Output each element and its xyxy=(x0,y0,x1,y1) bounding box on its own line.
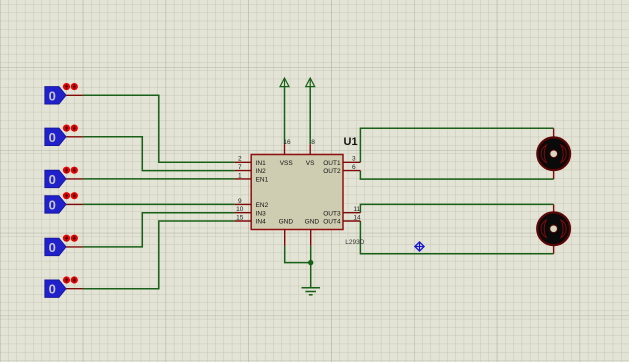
svg-text:11: 11 xyxy=(353,206,360,213)
svg-text:IN4: IN4 xyxy=(256,219,267,226)
pin 1 stub xyxy=(235,178,252,180)
wire input2 to IN2 xyxy=(83,137,235,171)
pin number 10 xyxy=(236,206,244,213)
pin 10 stub xyxy=(235,212,252,214)
pin name GND left xyxy=(279,219,294,226)
wire GND left pin to junction xyxy=(285,246,311,263)
svg-text:9: 9 xyxy=(238,198,242,205)
pin 16 stub xyxy=(284,144,286,154)
pin 9 stub xyxy=(235,203,252,205)
svg-text:GND: GND xyxy=(279,219,294,226)
svg-text:0: 0 xyxy=(49,88,56,103)
svg-text:L293D: L293D xyxy=(345,239,364,246)
pin name EN2 xyxy=(256,202,269,209)
svg-text:10: 10 xyxy=(236,206,244,213)
pin number 6 xyxy=(352,164,356,171)
wire input3 to EN1 xyxy=(83,178,235,180)
wire OUT4 to motor M2 bottom xyxy=(360,221,553,254)
origin marker xyxy=(415,242,424,251)
pin number 9 xyxy=(238,198,242,205)
wire OUT2 to motor M1 bottom xyxy=(360,171,553,180)
svg-text:OUT4: OUT4 xyxy=(323,219,341,226)
motor M2 xyxy=(537,204,570,253)
svg-text:7: 7 xyxy=(238,164,242,171)
wire input4 to EN2 xyxy=(83,203,235,205)
pin name OUT4 xyxy=(323,219,341,226)
logic state input 6 xyxy=(45,276,83,297)
junction dot xyxy=(308,260,313,265)
pin name VS xyxy=(306,160,315,167)
logic state input 4 xyxy=(45,192,83,213)
op-amp U1 body (L293D driver) xyxy=(251,155,343,230)
svg-text:0: 0 xyxy=(49,172,56,187)
svg-text:8: 8 xyxy=(311,139,315,146)
wire GND right pin to ground xyxy=(310,246,312,288)
svg-text:OUT1: OUT1 xyxy=(323,160,341,167)
pin name EN1 xyxy=(256,177,269,184)
svg-text:0: 0 xyxy=(49,130,56,145)
pin number 16 xyxy=(283,139,291,146)
ground xyxy=(302,288,321,295)
pin name OUT2 xyxy=(323,168,341,175)
pin name IN3 xyxy=(256,210,267,217)
motor M1 xyxy=(537,128,570,179)
pin 12/13 GND stub xyxy=(310,230,312,246)
power symbol VCC1 xyxy=(280,78,289,87)
logic state input 3 xyxy=(45,167,83,188)
pin 15 stub xyxy=(235,220,252,222)
svg-text:16: 16 xyxy=(283,139,291,146)
pin name OUT3 xyxy=(323,210,341,217)
pin number 7 xyxy=(238,164,242,171)
svg-text:IN2: IN2 xyxy=(256,168,267,175)
wire input5 to IN3 xyxy=(83,213,235,247)
pin 11 stub xyxy=(343,212,360,214)
pin number 8 xyxy=(311,139,315,146)
svg-text:3: 3 xyxy=(352,156,356,163)
pin 7 stub xyxy=(235,170,252,172)
svg-text:EN2: EN2 xyxy=(256,202,269,209)
svg-text:U1: U1 xyxy=(344,136,358,148)
wire input1 to IN1 xyxy=(83,95,235,162)
pin 3 stub xyxy=(343,161,360,163)
power symbol VCC2 xyxy=(306,78,315,87)
svg-text:OUT3: OUT3 xyxy=(323,210,341,217)
svg-text:0: 0 xyxy=(49,282,56,297)
wire VCC1 to VSS pin16 xyxy=(284,87,286,145)
svg-text:IN3: IN3 xyxy=(256,210,267,217)
pin number 14 xyxy=(353,214,361,221)
svg-text:6: 6 xyxy=(352,164,356,171)
wire input6 to IN4 xyxy=(83,221,235,289)
pin name OUT1 xyxy=(323,160,341,167)
svg-text:1: 1 xyxy=(238,172,242,179)
svg-text:14: 14 xyxy=(353,214,361,221)
pin name IN2 xyxy=(256,168,267,175)
logic state input 2 xyxy=(45,125,83,146)
value L293D xyxy=(345,239,364,246)
pin number 2 xyxy=(238,156,242,163)
svg-text:OUT2: OUT2 xyxy=(323,168,341,175)
pin 2 stub xyxy=(235,161,252,163)
pin name VSS xyxy=(280,160,294,167)
svg-text:VSS: VSS xyxy=(280,160,294,167)
svg-text:VS: VS xyxy=(306,160,315,167)
pin name GND right xyxy=(305,219,320,226)
wire OUT1 to motor M1 top xyxy=(360,128,553,162)
pin 6 stub xyxy=(343,170,360,172)
pin name IN4 xyxy=(256,219,267,226)
wire OUT3 to motor M2 top xyxy=(360,204,553,212)
pin 14 stub xyxy=(343,220,360,222)
pin number 11 xyxy=(353,206,360,213)
logic state input 5 xyxy=(45,235,83,256)
svg-text:2: 2 xyxy=(238,156,242,163)
pin 4/5 GND stub xyxy=(284,230,286,246)
pin number 1 xyxy=(238,172,242,179)
svg-text:0: 0 xyxy=(49,240,56,255)
svg-text:15: 15 xyxy=(236,214,244,221)
pin number 3 xyxy=(352,156,356,163)
pin name IN1 xyxy=(256,160,267,167)
svg-text:0: 0 xyxy=(49,197,56,212)
svg-text:IN1: IN1 xyxy=(256,160,267,167)
svg-text:EN1: EN1 xyxy=(256,177,269,184)
logic state input 1 xyxy=(45,83,83,104)
svg-text:GND: GND xyxy=(305,219,320,226)
pin 8 stub xyxy=(309,144,311,154)
wire VCC2 to VS pin8 xyxy=(309,87,311,145)
reference U1 xyxy=(344,136,358,148)
pin number 15 xyxy=(236,214,244,221)
